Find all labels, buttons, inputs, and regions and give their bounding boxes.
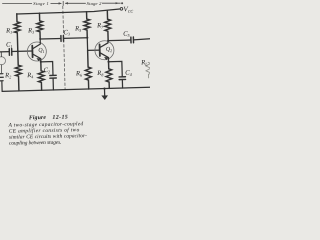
Q2 emitter	[100, 53, 108, 62]
Q1 emitter arrowhead	[36, 58, 40, 61]
Vcc terminal	[120, 8, 123, 11]
wire emitter Q2 to C4	[109, 61, 123, 77]
stage marker line right of 'Stage 1' with right arrow	[51, 2, 62, 4]
source internal marks (cut off at edge)	[0, 74, 4, 92]
wire C2 to ground rail	[52, 78, 54, 90]
Q2 collector	[100, 41, 108, 48]
capacitor C2 plates	[50, 75, 56, 78]
Q2 emitter arrowhead	[104, 57, 108, 60]
svg-text:Stage 2: Stage 2	[87, 1, 103, 6]
svg-text:Q1: Q1	[38, 48, 44, 54]
stage marker line right of tick with left arrow	[65, 2, 86, 4]
svg-text:Stage 1: Stage 1	[33, 1, 49, 6]
stage 1 right arrowhead	[59, 2, 62, 4]
resistor R8	[106, 62, 113, 89]
stage 2 left arrowhead	[65, 2, 68, 4]
node: Q2 emitter	[107, 61, 109, 63]
resistor R1	[14, 14, 21, 52]
resistor R5	[84, 12, 91, 38]
top supply rail	[17, 9, 120, 14]
transistor Q1	[27, 42, 47, 62]
wire emitter Q1 to C2	[41, 61, 53, 75]
wire source bottom stub	[0, 65, 2, 73]
capacitor C1 plates	[9, 49, 12, 56]
ground rail	[2, 87, 152, 91]
svg-text:Figure: Figure	[29, 115, 47, 121]
component labels (rotated with schematic)	[2, 5, 148, 81]
stage marker end dot	[121, 2, 123, 4]
node: C3 to R5/R6 junction	[86, 37, 88, 39]
Q1 base bar	[31, 46, 33, 58]
Q2 base bar	[99, 44, 101, 56]
stage marker line right of 'Stage 2'	[102, 2, 121, 4]
node: base bias junction Q1	[17, 50, 19, 52]
capacitor C3 plates	[61, 35, 64, 41]
node: Q1 collector tap	[39, 38, 41, 40]
interstage wire with capacitor C3	[40, 38, 87, 39]
node: ground junction	[103, 87, 105, 89]
output wire with capacitor C5	[108, 39, 151, 41]
input wire with capacitor C1	[0, 50, 32, 53]
transistor Q2	[95, 40, 115, 60]
wire R5 junction down to Q2 base	[87, 37, 99, 50]
resistor R3	[37, 13, 44, 39]
stage annotation row (flat)	[2, 1, 120, 6]
divider tick top	[62, 1, 64, 6]
node: Q1 emitter	[40, 61, 42, 63]
node: Q2 collector tap	[107, 40, 109, 42]
resistor R4	[38, 62, 45, 91]
capacitor C5 plates	[131, 37, 134, 43]
wire source top stub	[0, 52, 2, 57]
resistor R7	[104, 11, 111, 41]
Q1 collector	[33, 39, 41, 49]
resistor R2	[15, 51, 22, 91]
ground symbol	[103, 89, 105, 96]
svg-text:12-15: 12-15	[52, 115, 67, 121]
capacitor C4 plates	[119, 77, 125, 80]
stage marker line left of 'Stage 1'	[2, 2, 32, 4]
resistor R6	[85, 50, 92, 89]
schematic (rotated scan skew)	[0, 4, 152, 103]
wire C4 to ground rail	[121, 80, 123, 88]
svg-text:Q2: Q2	[106, 47, 112, 53]
dashed stage divider	[63, 6, 65, 89]
signal source circle	[0, 57, 6, 65]
load resistor RL (faint, cut off at edge)	[146, 62, 151, 78]
svg-text:coupling between stages.: coupling between stages.	[9, 140, 62, 147]
stage 2 right arrowhead	[116, 2, 119, 4]
Q1 emitter	[33, 54, 41, 62]
figure caption	[7, 114, 87, 147]
